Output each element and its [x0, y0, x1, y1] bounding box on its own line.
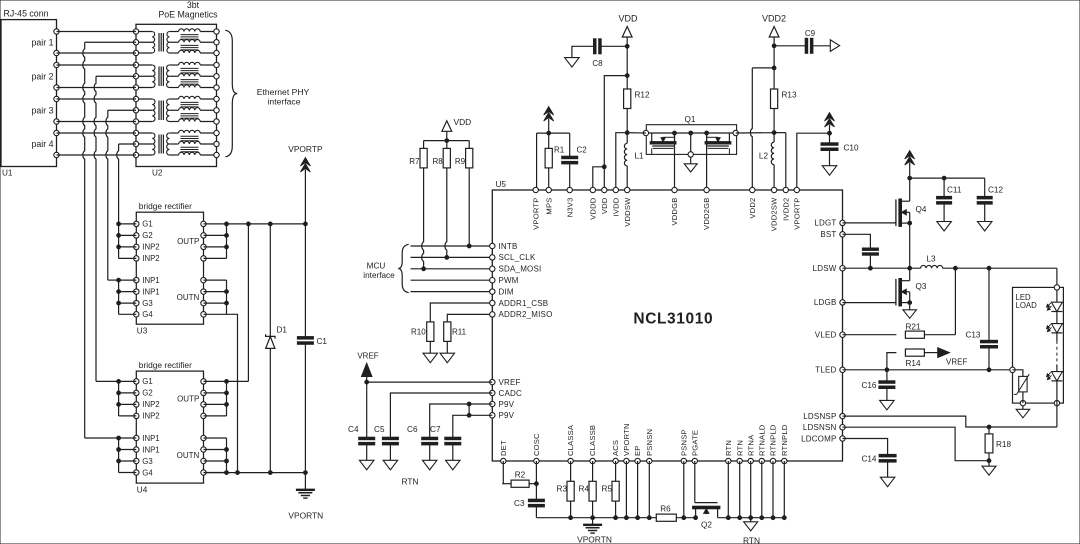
svg-text:C8: C8: [592, 59, 603, 68]
wire center tap pair2: [94, 76, 136, 381]
resistor R13: [771, 89, 797, 133]
capacitor C14: [861, 454, 896, 486]
U5 pin INTB (left): [490, 242, 518, 251]
U5 pin RTNPLD (bottom): [769, 424, 778, 463]
wire RJ45 pin3 to magnetics: [57, 64, 137, 66]
capacitor C3: [514, 499, 544, 518]
bridge rectifier U4: [134, 360, 207, 495]
svg-text:G2: G2: [142, 231, 152, 240]
U5 pin RTNALD (bottom): [757, 424, 766, 463]
svg-text:pair 3: pair 3: [31, 105, 53, 115]
LED chain dashed continuation: [1056, 333, 1058, 365]
svg-text:PGATE: PGATE: [690, 430, 699, 456]
RJ-45 connector U1: [1, 9, 59, 178]
wire SDA_MOSI: [411, 268, 493, 270]
Q3 source ground: [903, 310, 917, 319]
U5 pin CLASSB (bottom): [588, 425, 597, 464]
Q1 source ground: [684, 164, 697, 172]
LED D-chain 2: [1047, 312, 1063, 333]
svg-text:C11: C11: [947, 186, 962, 195]
wire EP stub: [637, 461, 639, 518]
transformer T4: [133, 130, 219, 157]
transformer T2: [133, 62, 219, 90]
svg-text:INP2: INP2: [142, 412, 159, 421]
transistor Q1: [643, 115, 738, 190]
svg-text:ACS: ACS: [611, 440, 620, 456]
wire IVDD2: [785, 133, 787, 190]
svg-text:R7: R7: [409, 157, 420, 166]
svg-text:R1: R1: [554, 146, 565, 155]
svg-text:LDGB: LDGB: [814, 298, 837, 307]
U5 pin PWM (left): [490, 276, 519, 285]
svg-text:R3: R3: [557, 485, 568, 494]
U5 pin VDD2GB (top): [702, 187, 711, 230]
svg-text:bridge rectifier: bridge rectifier: [139, 360, 192, 370]
wire ADDR1_CSB: [430, 303, 492, 322]
VPORTP arrow (C10): [825, 113, 835, 134]
U5 pin CLASSA (bottom): [566, 424, 575, 464]
wire VPORTP output node: [227, 222, 308, 226]
svg-text:LDSNSP: LDSNSP: [803, 412, 836, 421]
wire INTB: [411, 245, 493, 247]
wire Q1 left: [627, 132, 646, 134]
svg-text:VDD: VDD: [618, 14, 638, 24]
wire center tap pair1: [83, 42, 136, 438]
U5 pin LDSW (right): [813, 264, 846, 273]
LED D-chain 3: [1047, 365, 1063, 403]
resistor R6: [656, 505, 676, 522]
svg-text:EP: EP: [633, 445, 642, 456]
U5 pin EP (bottom): [633, 445, 642, 463]
svg-text:G1: G1: [142, 377, 152, 386]
Ethernet PHY interface brace: [225, 30, 309, 157]
VPORTP supply arrow: [288, 144, 323, 224]
svg-text:LDSNSN: LDSNSN: [803, 423, 837, 432]
LED load ground: [1016, 406, 1030, 418]
wire RJ45 pin7 to magnetics: [57, 132, 137, 134]
wire PSNSN stub: [648, 461, 650, 518]
svg-text:PoE Magnetics: PoE Magnetics: [158, 10, 218, 20]
capacitor C1: [297, 224, 327, 473]
svg-text:VPORTP: VPORTP: [288, 144, 323, 154]
resistor R11: [440, 322, 467, 363]
svg-text:INTB: INTB: [499, 242, 518, 251]
svg-text:CADC: CADC: [499, 389, 522, 398]
resistor R3: [557, 461, 575, 518]
svg-text:G1: G1: [142, 220, 152, 229]
capacitor C6: [407, 425, 438, 470]
U5 pin RTN (bottom): [735, 440, 744, 464]
svg-text:RTNA: RTNA: [746, 434, 755, 456]
svg-text:RTN: RTN: [724, 440, 733, 456]
svg-text:RJ-45 conn: RJ-45 conn: [4, 9, 49, 19]
svg-text:D1: D1: [277, 326, 288, 335]
svg-text:LDSW: LDSW: [813, 264, 837, 273]
svg-text:L3: L3: [926, 255, 936, 264]
svg-text:G2: G2: [142, 389, 152, 398]
VDD2 supply arrow: [762, 14, 786, 48]
svg-text:G3: G3: [142, 299, 152, 308]
svg-text:VLED: VLED: [815, 331, 837, 340]
svg-text:pair 1: pair 1: [31, 37, 53, 47]
wire U4 OUTP bus: [204, 380, 229, 416]
wire LED input rail: [910, 176, 985, 180]
wire P9V lower: [453, 413, 493, 437]
wire LDGT: [843, 222, 896, 224]
capacitor C13: [965, 268, 997, 370]
svg-text:IVDD: IVDD: [611, 197, 620, 216]
svg-text:PWM: PWM: [499, 276, 519, 285]
wire LDCOMP: [843, 439, 888, 455]
RTN ground: [743, 518, 760, 544]
svg-text:TLED: TLED: [815, 366, 836, 375]
U5 pin RTN (bottom): [724, 440, 733, 464]
U5 pin VLED (right): [815, 331, 845, 340]
wire P9V upper: [430, 402, 493, 437]
wire VLED: [843, 334, 897, 336]
U5 pin BST (right): [820, 230, 845, 239]
svg-text:VDDSW: VDDSW: [623, 197, 632, 227]
VREF arrow (R14): [938, 348, 968, 367]
svg-text:R13: R13: [782, 91, 797, 100]
svg-text:C14: C14: [861, 455, 876, 464]
VDD supply (pull-ups): [442, 117, 471, 143]
wire DET: [502, 461, 511, 484]
wire VDD2 rail: [772, 46, 776, 89]
capacitor C12: [977, 178, 1003, 231]
U5 pin VREF (left): [490, 378, 521, 387]
wire RJ45 pin5 to magnetics: [57, 98, 137, 100]
svg-text:VPORTN: VPORTN: [622, 423, 631, 456]
svg-text:R8: R8: [432, 157, 443, 166]
svg-text:MPS: MPS: [544, 198, 553, 215]
wire TLED node: [843, 368, 1013, 372]
resistor R12: [624, 89, 650, 135]
U5 pin N3V3 (top): [565, 187, 574, 217]
svg-text:DIM: DIM: [499, 287, 514, 296]
inductor L3: [921, 255, 943, 269]
svg-text:U3: U3: [137, 327, 148, 336]
svg-text:R10: R10: [411, 328, 426, 337]
wire VPORTP (C10 node): [797, 131, 832, 190]
svg-text:VDDD: VDDD: [588, 197, 597, 220]
svg-text:R12: R12: [635, 91, 650, 100]
wire U3 lower input bus: [117, 278, 137, 314]
wire U3 OUTP bus: [204, 222, 229, 258]
svg-text:CLASSB: CLASSB: [588, 425, 597, 456]
U5 pin IVDD (top): [611, 187, 620, 216]
inductor L2: [759, 133, 774, 190]
svg-text:PSNSP: PSNSP: [679, 429, 688, 456]
wire MPS node: [537, 133, 570, 190]
U5 pin COSC (bottom): [532, 433, 541, 464]
svg-text:INP2: INP2: [142, 400, 159, 409]
wire VLED rail: [943, 266, 1057, 287]
svg-text:INP1: INP1: [142, 287, 159, 296]
svg-text:OUTP: OUTP: [177, 237, 199, 246]
svg-text:RTN: RTN: [401, 477, 418, 487]
svg-text:G3: G3: [142, 457, 152, 466]
U5 pin RTNPLD (bottom): [780, 424, 789, 463]
wire pull-up rail: [424, 140, 470, 142]
svg-text:VDD: VDD: [454, 117, 472, 127]
svg-text:interface: interface: [268, 97, 301, 107]
svg-text:R9: R9: [455, 157, 466, 166]
svg-text:LOAD: LOAD: [1016, 301, 1038, 310]
capacitor C7: [430, 425, 461, 470]
svg-text:VREF: VREF: [357, 352, 378, 361]
svg-text:N3V3: N3V3: [565, 198, 574, 218]
resistor R8: [432, 141, 450, 260]
U5 pin ACS (bottom): [611, 440, 620, 464]
svg-text:Q4: Q4: [916, 205, 927, 214]
resistor R1: [545, 133, 565, 190]
svg-text:VPORTN: VPORTN: [577, 535, 612, 544]
bridge rectifier U3: [134, 201, 207, 336]
U5 pin VPORTP (top): [792, 187, 801, 229]
svg-text:C7: C7: [430, 425, 441, 434]
U5 pin LDGT (right): [814, 219, 845, 228]
svg-text:VPORTP: VPORTP: [792, 198, 801, 230]
svg-text:VREF: VREF: [946, 358, 967, 367]
wire VPORTN pin stub: [625, 461, 627, 518]
capacitor C16: [861, 370, 894, 410]
svg-text:OUTN: OUTN: [177, 451, 200, 460]
svg-text:P9V: P9V: [499, 411, 515, 420]
PoE magnetics module U2: [136, 0, 218, 177]
svg-text:MCU: MCU: [367, 262, 386, 271]
svg-text:ADDR1_CSB: ADDR1_CSB: [499, 299, 549, 308]
capacitor C2: [562, 133, 588, 190]
svg-text:RTN: RTN: [735, 440, 744, 456]
svg-text:INP2: INP2: [142, 254, 159, 263]
wire center tap pair3: [106, 110, 136, 280]
U5 pin TLED (right): [815, 366, 845, 375]
svg-text:R11: R11: [452, 328, 467, 337]
svg-text:VDDGB: VDDGB: [670, 198, 679, 226]
wire U4 lower input bus: [117, 436, 137, 472]
LED load module: [1010, 285, 1064, 406]
svg-text:PSNSN: PSNSN: [645, 429, 654, 456]
svg-text:IVDD2: IVDD2: [781, 198, 790, 221]
wire U3 OUTN return: [227, 314, 238, 472]
svg-text:INP1: INP1: [142, 276, 159, 285]
svg-text:RTNPLD: RTNPLD: [769, 424, 778, 456]
svg-text:LDCOMP: LDCOMP: [801, 434, 836, 443]
U5 pin SDA_MOSI (left): [490, 265, 542, 274]
IC U5 NCL31010: [492, 180, 842, 461]
svg-text:C1: C1: [317, 337, 328, 346]
U5 pin VDD2SW (top): [770, 187, 779, 231]
wire U4 upper input bus: [117, 380, 137, 416]
svg-text:P9V: P9V: [499, 400, 515, 409]
wire U4 OUTN bus: [204, 438, 229, 473]
svg-text:BST: BST: [820, 230, 836, 239]
wire BST: [843, 234, 871, 248]
svg-text:VREF: VREF: [499, 378, 521, 387]
svg-text:VDD2: VDD2: [762, 14, 786, 24]
svg-text:Q3: Q3: [916, 282, 927, 291]
svg-text:COSC: COSC: [532, 433, 541, 456]
wire VREF: [367, 381, 493, 383]
resistor R14: [887, 349, 938, 370]
transistor Q2: [693, 461, 720, 530]
svg-text:bridge rectifier: bridge rectifier: [139, 201, 192, 211]
U5 pin PSNSN (bottom): [645, 429, 654, 464]
resistor R10: [411, 322, 438, 363]
U5 pin P9V (left): [490, 411, 515, 420]
svg-text:INP1: INP1: [142, 445, 159, 454]
resistor R2: [511, 471, 538, 488]
VPORTN ground symbol: [288, 473, 323, 521]
inductor L1: [624, 133, 644, 190]
svg-text:OUTP: OUTP: [177, 395, 199, 404]
svg-text:G4: G4: [142, 468, 153, 477]
U5 pin VDDD (top): [588, 187, 597, 220]
svg-text:C10: C10: [844, 144, 859, 153]
R18 ground: [982, 461, 996, 476]
wire LDSNSP: [843, 403, 1057, 429]
wire U3 upper input bus: [117, 222, 137, 258]
svg-text:INP2: INP2: [142, 243, 159, 252]
U5 pin VDDSW (top): [623, 187, 632, 226]
svg-text:SDA_MOSI: SDA_MOSI: [499, 265, 542, 274]
svg-text:C9: C9: [805, 29, 816, 38]
svg-text:VDD2GB: VDD2GB: [702, 198, 711, 230]
wire LDSW node: [843, 266, 921, 270]
wire DIM: [411, 291, 493, 293]
svg-text:Ethernet PHY: Ethernet PHY: [257, 87, 310, 97]
wire RJ45 pin8 to magnetics: [57, 154, 137, 156]
transformer T1: [133, 29, 219, 56]
U5 pin LDGB (right): [814, 298, 845, 307]
wire center tap pair4: [117, 144, 136, 224]
svg-text:L1: L1: [635, 152, 645, 161]
svg-text:R14: R14: [905, 359, 920, 368]
svg-text:C13: C13: [965, 331, 980, 340]
RTN net label: [401, 477, 418, 487]
resistor R9: [455, 141, 473, 248]
wire CADC: [390, 393, 492, 437]
svg-text:R18: R18: [996, 440, 1011, 449]
wire IVDD jog: [616, 133, 627, 190]
wire P9V tie: [468, 404, 470, 415]
wire RJ45 pin2 to magnetics: [57, 52, 137, 54]
svg-text:R21: R21: [905, 323, 920, 332]
svg-text:C3: C3: [514, 499, 525, 508]
svg-text:U5: U5: [496, 180, 507, 189]
svg-text:OUTN: OUTN: [177, 293, 200, 302]
transformer T3: [133, 96, 219, 124]
LED D-chain 1: [1047, 290, 1063, 311]
U5 pin VPORTP (top): [531, 187, 540, 229]
svg-text:ADDR2_MISO: ADDR2_MISO: [499, 310, 553, 319]
wire RJ45 pin4 to magnetics: [57, 87, 137, 89]
svg-text:interface: interface: [363, 271, 395, 280]
wire VDD2 branch to pin: [750, 68, 774, 190]
svg-text:C16: C16: [861, 381, 876, 390]
U5 pin LDCOMP (right): [801, 434, 845, 443]
svg-text:Q2: Q2: [701, 521, 712, 530]
zener diode D1: [266, 224, 288, 473]
wire VPORTN bottom bus: [204, 471, 308, 475]
U5 pin VDDGB (top): [670, 187, 679, 225]
capacitor C11: [937, 178, 962, 231]
wire SCL_CLK: [411, 256, 493, 258]
transistor Q3: [896, 268, 927, 310]
wire VDDD jog: [593, 165, 606, 190]
U5 pin P9V (left): [490, 400, 515, 409]
wire VDD branch to pin: [604, 76, 627, 190]
resistor R21: [905, 268, 955, 338]
wire LDSNSN: [843, 427, 990, 461]
svg-text:C5: C5: [374, 425, 385, 434]
svg-text:R2: R2: [515, 471, 526, 480]
wire VDD rail: [625, 46, 629, 89]
svg-text:C6: C6: [407, 425, 418, 434]
U5 pin ADDR2_MISO (left): [490, 310, 553, 319]
U5 pin PSNSP (bottom): [679, 429, 688, 463]
svg-text:C12: C12: [988, 186, 1003, 195]
svg-text:VDD2: VDD2: [748, 198, 757, 219]
VPORTP arrow (MPS divider): [544, 107, 554, 136]
VPORTN ground (rail): [577, 518, 612, 544]
U5 pin VPORTN (bottom): [622, 423, 631, 463]
U5 pin VDD2 (top): [748, 187, 757, 218]
wire RJ45 pin6 to magnetics: [57, 121, 137, 123]
svg-text:VPORTP: VPORTP: [531, 198, 540, 230]
wire LDGB: [843, 302, 896, 304]
svg-text:R4: R4: [579, 485, 590, 494]
wire U3 OUTN bus: [204, 280, 229, 314]
svg-text:U4: U4: [137, 486, 148, 495]
svg-text:VDD: VDD: [600, 197, 609, 214]
ground rail (VPORTN/RTN): [536, 516, 786, 520]
VPORTP arrow (LED rail): [905, 151, 915, 181]
capacitor C5: [374, 425, 398, 470]
svg-text:DET: DET: [499, 440, 508, 456]
transistor Q4: [896, 178, 927, 268]
U5 pin RTNA (bottom): [746, 434, 755, 464]
wire Q1 right to VDD2SW node: [736, 131, 786, 135]
U5 pin DIM (left): [490, 287, 514, 296]
U5 pin ADDR1_CSB (left): [490, 299, 549, 308]
svg-text:C2: C2: [577, 146, 588, 155]
svg-text:CLASSA: CLASSA: [566, 424, 575, 456]
wire RJ45 pin1 to magnetics: [57, 31, 137, 33]
VREF supply arrow: [357, 352, 378, 385]
U5 pin VDD (top): [600, 187, 609, 214]
resistor R18: [985, 427, 1011, 463]
svg-text:pair 4: pair 4: [31, 139, 53, 149]
U5 pin PGATE (bottom): [690, 430, 699, 464]
U5 pin LDSNSN (right): [803, 423, 845, 432]
U5 pin SCL_CLK (left): [490, 253, 536, 262]
MCU interface brace: [363, 244, 408, 292]
svg-text:SCL_CLK: SCL_CLK: [499, 253, 536, 262]
wire PWM: [411, 279, 493, 281]
svg-text:Q1: Q1: [685, 115, 696, 124]
svg-text:VDD2SW: VDD2SW: [770, 197, 779, 231]
resistor R7: [409, 141, 427, 271]
U5 pin LDSNSP (right): [803, 412, 845, 421]
svg-text:LDGT: LDGT: [814, 219, 836, 228]
capacitor C8: [565, 39, 628, 68]
U5 pin IVDD2 (top): [781, 187, 790, 221]
svg-text:R6: R6: [660, 505, 671, 514]
VDD supply arrow (top): [618, 14, 638, 49]
wire U4 OUTP feed: [227, 224, 249, 382]
